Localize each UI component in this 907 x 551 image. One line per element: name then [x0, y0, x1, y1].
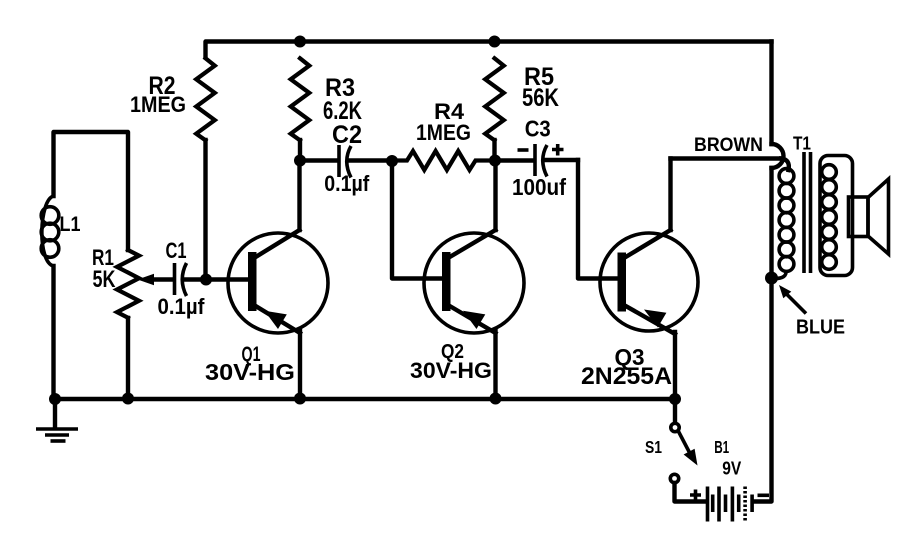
wire R5 bottom to C3 node: [492, 140, 496, 161]
transformer T1 core: [804, 152, 811, 273]
wire C1 to Q1 base node: [185, 277, 206, 281]
svg-text:BLUE: BLUE: [796, 317, 845, 339]
transformer T1 secondary winding: [820, 156, 853, 276]
wire Q1 base lead: [206, 277, 248, 281]
node junction ground rail / Q1 emitter: [294, 393, 306, 405]
node junction C2 / R4 / Q2 base: [386, 155, 398, 167]
svg-text:100uf: 100uf: [512, 174, 566, 200]
wire Q2 base lead: [392, 161, 442, 279]
resistor R4: [392, 151, 495, 170]
svg-text:B1: B1: [714, 437, 729, 457]
transistor Q2: [424, 233, 524, 333]
wire R1 wiper to C1: [152, 277, 172, 281]
svg-text:9V: 9V: [722, 458, 742, 479]
resistor R2: [196, 58, 215, 140]
svg-text:T1: T1: [793, 134, 811, 154]
wire C3 down to Q3 base lead: [578, 160, 618, 279]
plus polarity mark of C3: [552, 144, 564, 156]
capacitor C3 polarized: [533, 144, 537, 176]
node junction C1 / R2 / Q1 base: [200, 274, 212, 286]
wire S1 to battery plus: [675, 483, 707, 502]
wire along primary down to BLUE node: [769, 168, 773, 278]
ground symbol: [53, 399, 57, 427]
svg-text:30V-HG: 30V-HG: [205, 359, 295, 385]
wire top supply rail: [206, 42, 772, 58]
battery B1: [706, 487, 710, 522]
svg-text:0.1µf: 0.1µf: [324, 171, 370, 196]
wire BLUE node down to battery minus: [753, 278, 772, 502]
wire R1 bottom to ground rail: [126, 318, 130, 399]
wire L1 bottom to ground rail: [51, 266, 55, 399]
node junction top rail / R3: [294, 36, 306, 48]
wire Q3 emitter down to S1 node: [673, 332, 677, 399]
switch S1: [673, 399, 677, 422]
inductor L1: [42, 196, 54, 266]
capacitor C2: [337, 145, 341, 177]
wire R2 bottom to Q1 base node: [203, 140, 207, 280]
svg-text:30V-HG: 30V-HG: [410, 358, 492, 383]
potentiometer R1: [117, 250, 139, 318]
wire R3 bottom to C2 node: [298, 140, 302, 161]
transistor Q3: [600, 233, 698, 331]
svg-text:5K: 5K: [93, 266, 116, 293]
node junction ground rail / Q2 emitter: [490, 393, 502, 405]
wiper arrowhead of R1: [138, 274, 155, 286]
svg-text:1MEG: 1MEG: [416, 120, 471, 145]
node junction R3 / C2 / Q1 collector: [294, 155, 306, 167]
svg-text:C1: C1: [166, 238, 187, 263]
wire Q1 emitter down to ground rail: [298, 331, 302, 399]
svg-text:0.1µf: 0.1µf: [158, 294, 206, 319]
wire primary top connector: [781, 159, 789, 171]
node junction ground rail / Q3 emitter / S1: [669, 393, 681, 405]
svg-text:S1: S1: [645, 437, 662, 457]
wire bottom ground rail: [55, 397, 675, 401]
capacitor C1: [173, 263, 177, 295]
resistor R3: [291, 58, 310, 140]
wire right side down from rail: [769, 42, 773, 145]
wire L1 top to R1 top: [54, 132, 129, 250]
speaker: [849, 197, 869, 237]
wire primary bottom connector: [775, 271, 786, 279]
wire BROWN lead to transformer primary: [671, 156, 782, 160]
transistor Q1: [228, 233, 328, 333]
node BLUE junction primary bottom: [765, 272, 778, 285]
svg-text:1MEG: 1MEG: [130, 92, 186, 117]
wire Q3 collector up to BROWN lead: [668, 159, 672, 231]
wire node to C2 left plate: [300, 158, 337, 162]
node junction top rail / R5: [489, 36, 501, 48]
svg-text:C3: C3: [525, 116, 551, 142]
minus polarity mark of B1: [758, 493, 770, 497]
plus polarity mark of B1: [690, 490, 701, 501]
node junction ground rail / R1: [122, 393, 134, 405]
node junction R4 / R5 / C3 / Q2 collector: [489, 155, 501, 167]
wire Q2 collector up to R5/C3 node: [493, 161, 497, 230]
wire Q1 collector up to R3/C2 node: [297, 161, 301, 231]
svg-text:2N255A: 2N255A: [581, 363, 672, 390]
resistor R5: [485, 58, 504, 140]
minus polarity mark of C3: [518, 148, 529, 152]
wire C2 right plate to Q2 base node: [350, 158, 392, 162]
svg-text:C2: C2: [332, 121, 362, 149]
svg-text:56K: 56K: [522, 84, 559, 112]
svg-text:L1: L1: [60, 213, 81, 236]
node junction ground rail / L1: [49, 393, 61, 405]
wire hop crossing over BROWN lead: [772, 144, 784, 168]
transformer T1 primary winding: [779, 169, 794, 184]
arrow pointing to BLUE node: [787, 294, 807, 314]
wire Q2 emitter down to ground rail: [493, 331, 497, 399]
svg-text:BROWN: BROWN: [694, 134, 763, 156]
wire C3 right plate toward Q3: [546, 158, 578, 162]
wire node to C3 left plate: [495, 158, 533, 162]
